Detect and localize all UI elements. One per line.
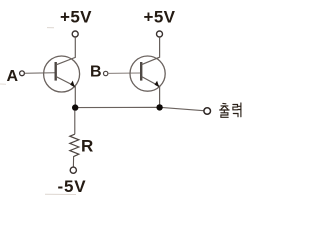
- resistor R: [70, 134, 79, 156]
- svg-text:B: B: [90, 64, 102, 81]
- label output (Korean 출력): [220, 103, 241, 117]
- wire: A terminal to Q1 base: [25, 72, 56, 74]
- terminal +5V right: [157, 31, 163, 37]
- node: junction Q2 emitter / bus: [156, 104, 162, 110]
- terminal input B: [104, 71, 108, 75]
- terminal +5V left: [72, 31, 78, 37]
- svg-text:R: R: [81, 137, 93, 156]
- wire: emitter bus to output: [75, 107, 204, 110]
- svg-text:A: A: [7, 68, 19, 85]
- wire: B terminal to Q2 base: [108, 72, 141, 74]
- svg-text:-5V: -5V: [58, 177, 87, 196]
- terminal -5V: [70, 167, 76, 173]
- terminal input A: [20, 71, 25, 76]
- transistor Q1 (left NPN): [44, 37, 80, 105]
- svg-text:+5V: +5V: [144, 8, 176, 27]
- transistor Q2 (right NPN): [130, 37, 165, 105]
- wire: junction to resistor: [74, 111, 76, 135]
- wire: resistor to -5V terminal: [72, 156, 74, 167]
- node: junction Q1 emitter / resistor: [72, 104, 78, 110]
- svg-text:+5V: +5V: [60, 8, 92, 27]
- terminal output: [204, 108, 211, 115]
